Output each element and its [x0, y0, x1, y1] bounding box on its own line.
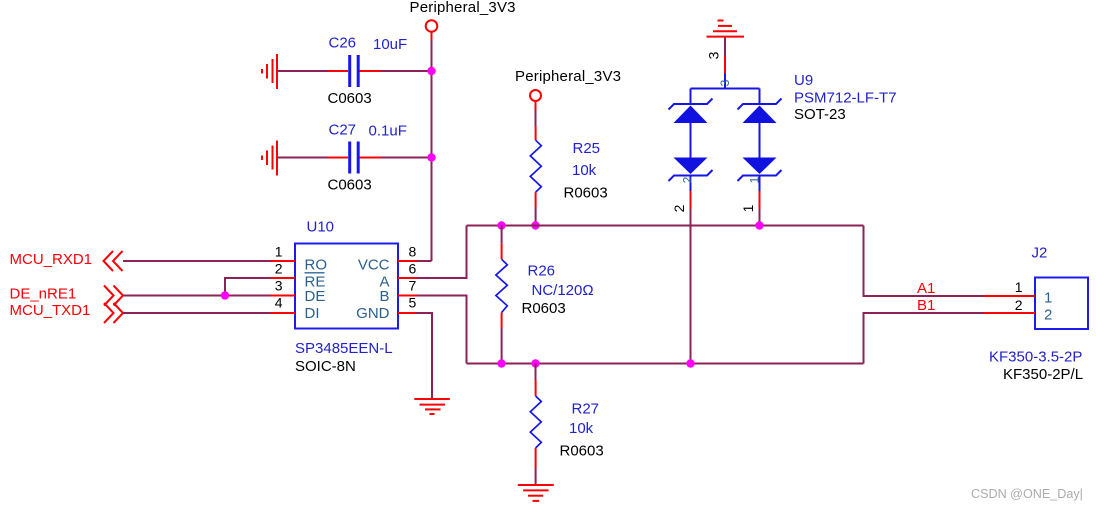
U9 pin 1 [759, 191, 761, 209]
svg-text:C0603: C0603 [328, 177, 372, 194]
junction R26 bottom [497, 359, 505, 367]
wire bottom bus (B net) [467, 363, 864, 365]
wire A bus to J2 pin1 [864, 226, 984, 297]
junction U9 pin1 / A bus [755, 221, 763, 229]
U10 pin 7 B [379, 278, 417, 306]
port chevron DE_nRE1 [104, 286, 123, 306]
svg-text:2: 2 [275, 261, 283, 277]
svg-text:R26: R26 [528, 263, 556, 280]
svg-text:7: 7 [409, 278, 417, 294]
svg-text:1: 1 [740, 204, 756, 212]
svg-text:DE: DE [305, 288, 326, 305]
wire top bus (A net) [467, 225, 864, 227]
wire VCC rail vertical [431, 40, 433, 261]
svg-text:3: 3 [275, 278, 283, 294]
wire B leg from pin 7 [416, 296, 467, 364]
svg-text:1: 1 [1015, 279, 1023, 295]
wire B bus to J2 pin2 [864, 313, 984, 364]
wire R25 to A bus [535, 207, 537, 226]
wire gnd to C26 [278, 70, 329, 72]
svg-text:MCU_RXD1: MCU_RXD1 [10, 251, 93, 268]
svg-text:MCU_TXD1: MCU_TXD1 [10, 302, 91, 319]
junction U9 pin2 / B bus [686, 359, 694, 367]
svg-text:2: 2 [1015, 297, 1023, 313]
port chevron MCU_RXD1 [104, 251, 123, 271]
U10 pin 1 RO [271, 244, 328, 274]
svg-text:Peripheral_3V3: Peripheral_3V3 [515, 68, 621, 85]
svg-text:10k: 10k [572, 162, 597, 179]
svg-text:R27: R27 [572, 401, 600, 418]
U10 pin 2 RE (active low) [271, 261, 326, 291]
svg-text:SP3485EEN-L: SP3485EEN-L [295, 340, 393, 357]
svg-text:6: 6 [409, 261, 417, 277]
svg-text:2: 2 [681, 176, 695, 183]
wire R27 to ground [535, 469, 537, 485]
svg-text:Peripheral_3V3: Peripheral_3V3 [410, 0, 516, 16]
svg-text:B: B [379, 288, 389, 305]
wire power to R25 [535, 110, 537, 126]
wire C26 to rail [381, 70, 432, 72]
diode D2b (bottom right, zener down) [738, 158, 782, 192]
U9 pin 2 [690, 191, 692, 209]
svg-text:R0603: R0603 [522, 300, 566, 317]
junction on rail at C27 [427, 153, 435, 161]
svg-text:DE_nRE1: DE_nRE1 [10, 286, 77, 303]
port chevron MCU_TXD1 [104, 303, 123, 323]
svg-text:5: 5 [409, 295, 417, 311]
wire MCU_TXD1 to pin 4 [123, 312, 271, 314]
wire A bus to R26 [501, 226, 503, 244]
svg-text:1: 1 [1044, 290, 1052, 307]
wire DE_nRE1 to pin 3 [123, 295, 271, 297]
wire A leg to pin 6 [416, 226, 467, 279]
svg-text:U9: U9 [794, 72, 813, 89]
svg-text:2: 2 [1044, 307, 1052, 324]
resistor R26 [496, 243, 594, 328]
svg-text:C27: C27 [329, 121, 357, 138]
svg-text:1: 1 [748, 176, 762, 183]
svg-text:KF350-2P/L: KF350-2P/L [1003, 366, 1083, 383]
diode D2a (top right, zener up) [738, 99, 782, 158]
svg-text:3: 3 [706, 51, 722, 59]
IC U10 body [295, 244, 398, 329]
wire ground to U9 pin 3 [724, 38, 726, 56]
svg-text:A1: A1 [917, 280, 935, 297]
svg-text:NC/120Ω: NC/120Ω [532, 282, 594, 299]
ground (earth, left of C27) [262, 141, 277, 176]
U9 pin 3 [724, 56, 726, 74]
wire U9 pin1 to A bus [759, 209, 761, 226]
svg-text:1: 1 [275, 244, 283, 260]
power port Peripheral_3V3 (above R25) [515, 68, 621, 110]
junction R26 top [497, 221, 505, 229]
ground (earth, left of C26) [262, 54, 277, 89]
resistor R25 [530, 126, 607, 207]
svg-text:KF350-3.5-2P: KF350-3.5-2P [989, 349, 1082, 366]
svg-text:VCC: VCC [358, 257, 390, 274]
U10 pin 4 DI [271, 295, 320, 323]
power port Peripheral_3V3 (left rail) [410, 0, 516, 40]
wire pin5 to ground [416, 313, 432, 398]
capacitor C26 [328, 35, 408, 108]
junction R25/A bus [531, 221, 539, 229]
svg-text:CSDN @ONE_Day|: CSDN @ONE_Day| [971, 487, 1083, 501]
svg-text:PSM712-LF-T7: PSM712-LF-T7 [794, 90, 897, 107]
wire branch to pin 2 [225, 278, 271, 296]
svg-text:2: 2 [671, 204, 687, 212]
diode D1b (bottom left, zener down) [669, 158, 713, 192]
svg-text:3: 3 [718, 79, 732, 86]
svg-text:R25: R25 [573, 140, 601, 157]
svg-text:10uF: 10uF [373, 36, 407, 53]
wire rail to pin 8 [416, 260, 432, 262]
junction DE_nRE1 branch [221, 291, 229, 299]
svg-text:C0603: C0603 [328, 90, 372, 107]
U10 pin 8 VCC [358, 244, 417, 274]
ground (below R27) [518, 485, 554, 501]
svg-text:C26: C26 [329, 35, 357, 52]
TVS U9 symbol [691, 74, 760, 105]
J2 pin 1 [984, 279, 1053, 307]
svg-text:8: 8 [409, 244, 417, 260]
svg-text:R0603: R0603 [564, 185, 608, 202]
junction R27 top [531, 359, 539, 367]
resistor R27 [530, 380, 603, 469]
wire C27 to rail [381, 157, 432, 159]
ground (below U10) [414, 399, 450, 414]
wire gnd to C27 [278, 157, 329, 159]
svg-text:DI: DI [305, 305, 320, 322]
wire R26 to B bus [501, 328, 503, 364]
ground (inverted, above U9) [707, 21, 745, 37]
svg-text:U10: U10 [307, 219, 335, 236]
svg-text:4: 4 [275, 295, 283, 311]
svg-text:10k: 10k [569, 420, 594, 437]
U10 pin 5 GND [356, 295, 417, 323]
svg-text:B1: B1 [917, 297, 935, 314]
diode D1a (top left, zener up) [669, 99, 713, 158]
U10 pin 3 DE [271, 278, 326, 306]
junction on rail at C26 [427, 67, 435, 75]
U10 pin 6 A [379, 261, 417, 291]
wire B bus to R27 [535, 364, 537, 381]
capacitor C27 [328, 121, 407, 193]
J2 pin 2 [984, 297, 1053, 324]
svg-text:RO: RO [305, 257, 328, 274]
svg-text:R0603: R0603 [560, 443, 604, 460]
svg-text:SOT-23: SOT-23 [794, 106, 846, 123]
svg-text:GND: GND [356, 305, 390, 322]
connector J2 body [1035, 278, 1088, 330]
svg-text:J2: J2 [1032, 245, 1048, 262]
svg-text:SOIC-8N: SOIC-8N [295, 358, 356, 375]
wire U9 pin2 to B bus [690, 209, 692, 364]
svg-text:0.1uF: 0.1uF [369, 123, 407, 140]
wire MCU_RXD1 to pin 1 [123, 260, 271, 262]
